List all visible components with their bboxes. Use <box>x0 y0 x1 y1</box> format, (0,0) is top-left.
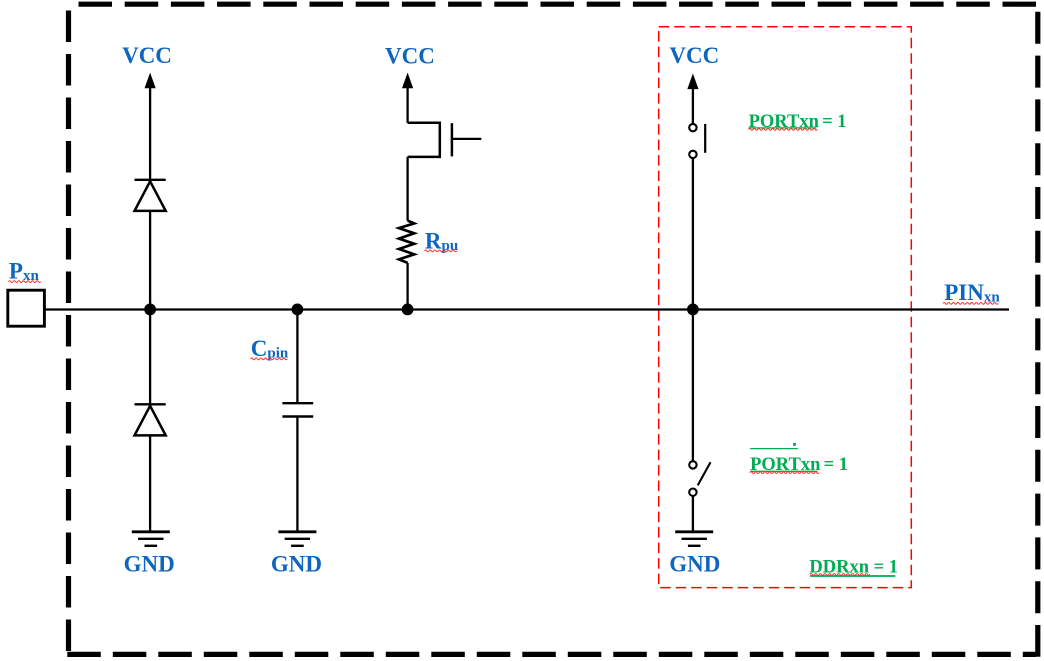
svg-text:GND: GND <box>669 552 720 577</box>
svg-text:= 1: = 1 <box>819 455 848 475</box>
svg-text:GND: GND <box>124 552 175 577</box>
svg-text:VCC: VCC <box>122 43 172 68</box>
svg-text:GND: GND <box>271 552 322 577</box>
svg-text:VCC: VCC <box>385 44 435 69</box>
svg-text:= 1: = 1 <box>818 112 847 132</box>
svg-text:VCC: VCC <box>669 43 719 68</box>
